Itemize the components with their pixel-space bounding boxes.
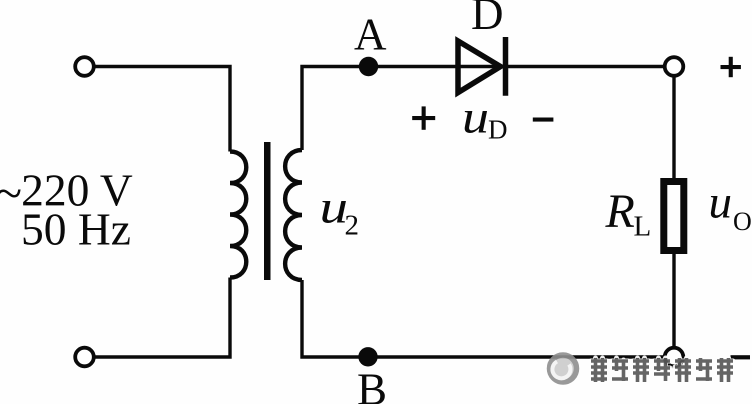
svg-text:u: u bbox=[709, 177, 733, 229]
svg-text:D: D bbox=[488, 115, 508, 145]
svg-text:2: 2 bbox=[345, 210, 360, 242]
svg-text:B: B bbox=[357, 365, 387, 404]
svg-text:u: u bbox=[462, 92, 489, 144]
svg-text:~: ~ bbox=[0, 166, 22, 221]
svg-text:L: L bbox=[634, 211, 652, 243]
svg-text:R: R bbox=[605, 185, 635, 238]
svg-text:D: D bbox=[471, 0, 504, 39]
svg-text:O: O bbox=[733, 207, 752, 236]
svg-text:50 Hz: 50 Hz bbox=[21, 204, 131, 255]
svg-text:A: A bbox=[354, 10, 387, 60]
